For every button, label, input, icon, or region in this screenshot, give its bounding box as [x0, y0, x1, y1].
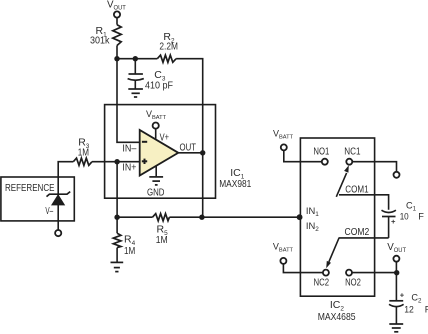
svg-text:301k: 301k	[90, 35, 110, 47]
wire NC1 to right terminal	[352, 162, 396, 172]
wire V_BATT to NO1	[284, 150, 322, 161]
reference block box	[1, 177, 74, 221]
wire R1 to node A	[116, 46, 118, 59]
svg-text:GND: GND	[147, 187, 165, 199]
svg-text:V+: V+	[160, 131, 169, 143]
wire R3 to IN+	[92, 161, 140, 163]
svg-text:1M: 1M	[124, 245, 135, 257]
switch lever COM1-NC1	[336, 165, 349, 197]
wire reference to R3	[58, 162, 73, 177]
svg-text:2.2M: 2.2M	[159, 40, 178, 52]
node B junction	[133, 56, 138, 61]
ground (op-amp GND)	[149, 177, 163, 185]
wire V_BATT to op-amp V+	[155, 129, 157, 140]
terminal NC1 external	[394, 172, 400, 178]
node V_OUT junction	[394, 270, 399, 275]
svg-text:COM2: COM2	[345, 226, 370, 238]
capacitor C2 12uF	[389, 291, 428, 324]
node IN+ junction	[114, 159, 119, 164]
resistor R3 1M	[73, 137, 92, 166]
op-amp U1 triangle	[140, 130, 179, 176]
node bottom-left junction	[114, 215, 119, 220]
svg-text:410 pF: 410 pF	[145, 79, 173, 91]
wire op-amp GND stem	[155, 166, 157, 177]
svg-text:MAX981: MAX981	[219, 178, 251, 190]
wire V_BATT to NC2	[283, 264, 323, 273]
terminal V_OUT (right)	[387, 242, 406, 262]
op-amp minus sign	[142, 141, 147, 143]
pin NO1	[313, 145, 329, 164]
wire OUT	[178, 152, 202, 154]
node OUT junction	[200, 150, 205, 155]
wire NO2 to V_OUT node	[352, 272, 397, 274]
node IN junction	[297, 214, 303, 220]
svg-text:MAX4685: MAX4685	[318, 311, 356, 323]
resistor R5 1M	[153, 214, 170, 246]
capacitor C3 410pF	[128, 59, 173, 92]
ground (R4)	[111, 262, 124, 271]
wire node to C2	[395, 273, 397, 301]
svg-text:REFERENCE: REFERENCE	[5, 182, 55, 194]
label IC2 MAX4685	[318, 299, 356, 323]
capacitor C1 10uF	[382, 201, 425, 238]
wire IN+ node to bottom rail	[116, 162, 118, 218]
svg-text:10: 10	[400, 212, 409, 222]
svg-text:12: 12	[404, 304, 414, 314]
terminal reference bottom	[55, 230, 61, 236]
wire COM1 to C1	[339, 195, 389, 210]
op-amp plus sign	[142, 159, 147, 164]
svg-text:V–: V–	[45, 205, 53, 217]
svg-text:+: +	[391, 217, 396, 226]
svg-text:1M: 1M	[78, 146, 89, 158]
node bottom-right junction	[199, 215, 204, 220]
wire node A to IN-	[117, 59, 140, 143]
resistor R4 1M	[113, 217, 135, 262]
wire COM2	[339, 237, 389, 239]
wire OUT to bottom rail	[202, 153, 204, 217]
terminal V_BATT (IC2 bottom)	[273, 242, 294, 264]
terminal V_BATT (IC2 top)	[273, 129, 294, 151]
svg-text:OUT: OUT	[180, 141, 197, 153]
wire node A to R2	[117, 58, 157, 60]
svg-text:IN+: IN+	[122, 162, 136, 174]
svg-text:NO2: NO2	[345, 277, 361, 289]
label IC1 MAX981	[219, 167, 251, 190]
ground (C2)	[389, 324, 403, 332]
svg-text:IN–: IN–	[122, 143, 136, 155]
bottom rail wire	[117, 216, 152, 218]
terminal V_BATT (op-amp supply)	[146, 109, 167, 129]
svg-text:NC2: NC2	[314, 277, 330, 289]
svg-text:+: +	[400, 291, 405, 300]
resistor R1 301k	[90, 25, 121, 47]
pin NO2	[345, 270, 361, 289]
svg-text:1M: 1M	[156, 234, 168, 246]
resistor R2 2.2M	[157, 31, 178, 62]
wire V_OUT to node	[395, 262, 397, 273]
wire R5 to IC2	[169, 216, 299, 218]
pin NC2	[314, 270, 330, 289]
switch lever COM2-NC2	[326, 238, 339, 269]
analog switch IC2 box	[300, 138, 374, 296]
svg-text:NC1: NC1	[344, 145, 360, 157]
pin NC1	[344, 145, 360, 164]
node A junction	[114, 56, 119, 61]
svg-text:F: F	[418, 212, 424, 222]
wire through zener	[57, 177, 59, 230]
zener diode D1	[47, 192, 71, 205]
ground (C3)	[128, 89, 143, 97]
op-amp block IC1 box	[105, 105, 216, 199]
wire V_OUT to R1	[116, 18, 118, 25]
terminal V_OUT (top)	[107, 0, 126, 18]
svg-text:NO1: NO1	[313, 145, 329, 157]
svg-text:COM1: COM1	[345, 183, 368, 195]
wire R2 to feedback corner	[176, 59, 203, 153]
